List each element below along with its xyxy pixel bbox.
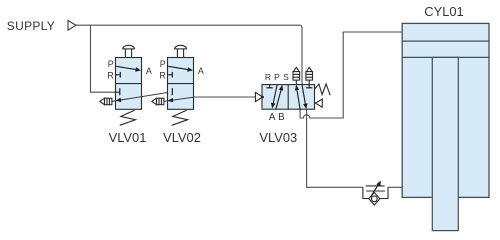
VLV03 blocked port S (right box) [308,85,310,88]
supply source symbol [68,21,76,31]
svg-text:A: A [198,66,204,76]
VLV02 flow arrow P-A [168,66,188,69]
svg-text:S: S [283,72,289,82]
wire: supply drop to VLV01 [91,25,120,92]
flow control valve check ball [371,196,377,202]
CYL01 piston [402,40,489,42]
svg-text:A: A [269,112,276,123]
VLV01 blocked port P (bottom box) [116,91,120,93]
svg-text:SUPPLY: SUPPLY [7,19,55,33]
cylinder CYL01 barrel [402,23,489,197]
VLV02 exhaust silencer [152,98,164,105]
svg-text:R: R [107,71,113,81]
svg-text:R: R [265,72,271,82]
wire: VLV01 exhaust diagonal to VLV02 input [112,92,172,102]
wire: VLV02 output to VLV03 pilot [194,96,256,98]
VLV03 exhaust silencer R [293,67,300,84]
VLV03 exhaust silencer S [306,67,313,84]
VLV02 blocked port bar (input from VLV01) [171,88,173,95]
VLV03 flow path P-B (right box) [302,85,305,104]
flow control valve adjustment arrow [371,184,379,197]
VLV03 blocked port R (left box) [269,85,271,88]
VLV02 pushbutton actuator [174,45,186,57]
wire: VLV03 port A to cylinder top [300,32,403,118]
svg-text:B: B [278,112,285,123]
VLV01 return spring [120,110,136,125]
flow control valve check diamond [369,192,380,205]
VLV03 flow path B-S (left box) [276,90,281,109]
VLV02 blocked port R [168,74,173,76]
svg-text:VLV02: VLV02 [163,130,201,145]
svg-text:VLV01: VLV01 [109,130,147,145]
svg-text:VLV03: VLV03 [259,130,297,145]
valve VLV01 body [116,58,142,110]
VLV02 return spring [172,110,188,125]
flow control valve bypass loop [363,187,388,198]
svg-text:P: P [274,72,280,82]
svg-text:A: A [146,66,152,76]
wire: flow valve to cylinder bottom [388,186,403,188]
VLV03 flow path A-R (right box) [297,90,300,109]
flow control valve throttle lines [366,186,385,191]
svg-text:P: P [160,59,166,69]
wire: VLV02 exhaust diagonal to output [164,97,194,101]
VLV03 flow path P-A (left box) [273,85,277,104]
VLV01 pushbutton actuator [122,45,134,57]
valve VLV03 body [262,85,315,110]
VLV03 pilot actuator left [255,92,262,101]
svg-text:R: R [159,71,165,81]
VLV03 return spring [315,84,330,95]
svg-text:CYL01: CYL01 [424,4,463,19]
valve VLV02 body [168,58,194,110]
wire: supply rail to VLV03 P [76,25,302,84]
VLV03 pilot actuator right [315,99,322,107]
svg-text:P: P [108,59,114,69]
VLV01 blocked port R [116,74,121,76]
VLV01 exhaust silencer [100,98,112,105]
wire: VLV03 port B down to flow valve [307,109,363,187]
VLV01 flow arrow P-A [116,66,136,69]
CYL01 piston rod [432,57,458,230]
